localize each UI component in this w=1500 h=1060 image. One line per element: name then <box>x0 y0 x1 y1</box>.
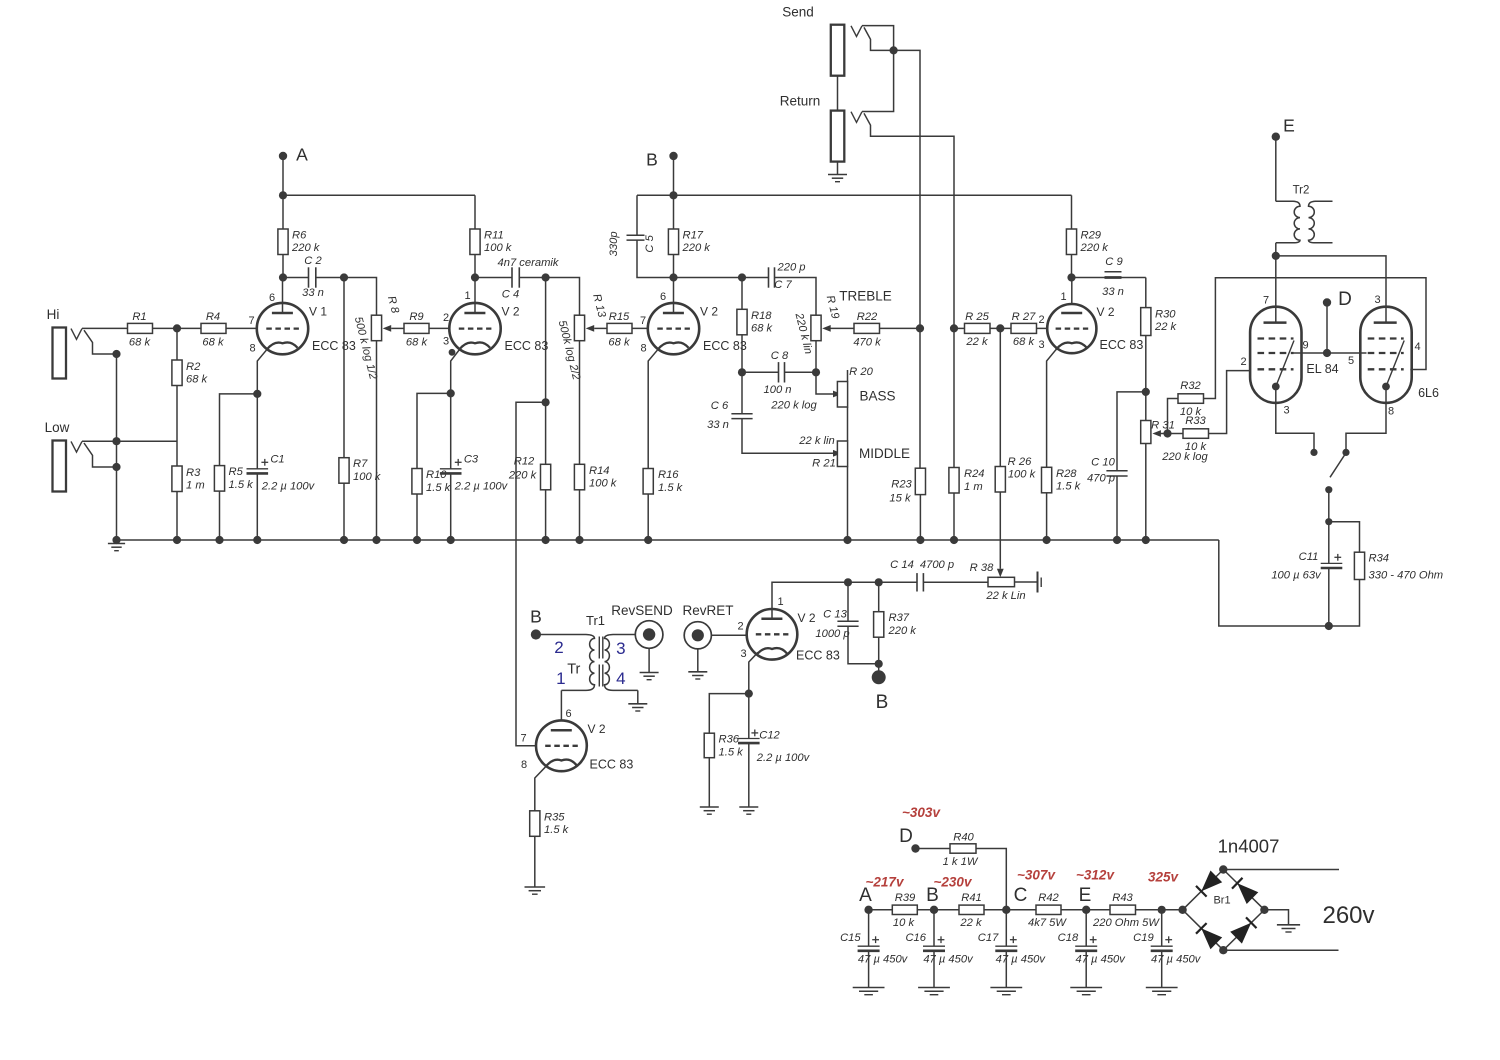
svg-text:47 µ 450v: 47 µ 450v <box>1076 954 1127 966</box>
svg-text:BASS: BASS <box>859 389 895 404</box>
diode D2 upper-right <box>1237 883 1258 904</box>
wire V2 plate pin 1 <box>1071 278 1073 306</box>
triode V2 third stage ECC 83 <box>648 303 699 354</box>
svg-text:MIDDLE: MIDDLE <box>859 446 910 461</box>
svg-text:22 k Lin: 22 k Lin <box>985 590 1025 602</box>
svg-text:R4: R4 <box>206 311 220 323</box>
svg-text:R9: R9 <box>409 311 423 323</box>
wire R27 to V2 grid pin 2 <box>1037 327 1048 329</box>
ground below C16 <box>918 987 950 989</box>
resistor R3 <box>172 466 182 492</box>
svg-text:3: 3 <box>1283 405 1289 417</box>
svg-text:330 - 470 Ohm: 330 - 470 Ohm <box>1369 570 1444 582</box>
svg-text:B: B <box>646 150 658 170</box>
potentiometer R8 500k log 1/2 <box>371 315 381 341</box>
svg-text:C 9: C 9 <box>1105 256 1122 268</box>
resistor R33 10k <box>1168 433 1184 435</box>
svg-text:Tr1: Tr1 <box>586 613 605 628</box>
resistor R12 <box>545 402 547 464</box>
svg-text:4n7 ceramik: 4n7 ceramik <box>498 257 560 269</box>
svg-text:ECC 83: ECC 83 <box>590 758 634 772</box>
svg-text:4700 p: 4700 p <box>920 559 954 571</box>
resistor R32 10k <box>1168 399 1179 434</box>
wiper node of R31 <box>1156 433 1168 435</box>
svg-text:10 k: 10 k <box>893 917 916 929</box>
node B reverb send <box>531 629 541 639</box>
potentiometer R31 220 k log <box>1141 421 1151 444</box>
resistor R25 <box>954 327 965 329</box>
power tube 6L6 <box>1360 307 1411 403</box>
svg-text:R24: R24 <box>964 468 985 480</box>
svg-text:V 2: V 2 <box>1097 305 1115 319</box>
V2 cathode pin 3 lead <box>749 652 758 693</box>
svg-text:D: D <box>899 826 913 847</box>
wire Tr2 primary to power tubes <box>1275 243 1277 256</box>
svg-text:R43: R43 <box>1112 892 1133 904</box>
svg-text:R23: R23 <box>891 478 912 490</box>
resistor R35 <box>530 811 540 837</box>
svg-text:7: 7 <box>640 315 646 327</box>
svg-text:A: A <box>296 145 308 165</box>
svg-text:9: 9 <box>1302 340 1308 352</box>
svg-text:~307v: ~307v <box>1017 868 1056 883</box>
svg-text:B: B <box>530 607 542 627</box>
svg-text:Send: Send <box>782 5 814 20</box>
svg-text:R18: R18 <box>751 310 772 322</box>
svg-text:220 Ohm 5W: 220 Ohm 5W <box>1092 917 1160 929</box>
svg-text:R34: R34 <box>1369 553 1390 565</box>
capacitor C8 100n <box>742 371 779 373</box>
wire jack shunt bus down to ground bus <box>116 354 118 540</box>
svg-text:10 k: 10 k <box>1185 441 1208 453</box>
svg-text:1: 1 <box>1060 291 1066 303</box>
svg-text:2.2 µ 100v: 2.2 µ 100v <box>756 752 811 764</box>
potentiometer R21 MIDDLE 22 k lin <box>847 407 849 441</box>
capacitor C12 2.2µ 100v <box>748 694 750 739</box>
capacitor C3 <box>450 393 452 468</box>
svg-text:~230v: ~230v <box>934 875 973 890</box>
svg-text:R32: R32 <box>1180 380 1201 392</box>
svg-text:R 31: R 31 <box>1151 419 1175 431</box>
svg-text:2.2 µ 100v: 2.2 µ 100v <box>261 481 316 493</box>
ground below R35 <box>525 886 546 888</box>
svg-text:Tr2: Tr2 <box>1293 185 1310 197</box>
svg-text:Tr: Tr <box>567 662 580 678</box>
ground below RevRET <box>697 648 699 672</box>
svg-text:Br1: Br1 <box>1213 895 1230 907</box>
svg-text:R 20: R 20 <box>849 366 873 378</box>
svg-text:1.5 k: 1.5 k <box>426 482 452 494</box>
svg-text:E: E <box>1283 116 1295 136</box>
svg-text:6: 6 <box>565 708 571 720</box>
svg-text:330p: 330p <box>608 231 620 256</box>
svg-text:C 13: C 13 <box>823 609 847 621</box>
svg-text:220 k log: 220 k log <box>770 400 817 412</box>
Return switch contact <box>864 113 954 328</box>
wire R1 to R4 <box>153 327 202 329</box>
ground below C19 <box>1146 987 1178 989</box>
svg-text:ECC 83: ECC 83 <box>796 649 840 663</box>
svg-text:EL 84: EL 84 <box>1306 362 1338 376</box>
svg-text:1.5 k: 1.5 k <box>719 747 745 759</box>
svg-text:R22: R22 <box>857 311 878 323</box>
svg-text:C16: C16 <box>905 932 926 944</box>
ground below Tr1 secondary <box>637 690 639 703</box>
svg-text:3: 3 <box>740 648 746 660</box>
svg-text:~312v: ~312v <box>1076 868 1115 883</box>
capacitor C11 100µ 63v <box>1328 522 1330 564</box>
resistor R14 <box>579 341 581 465</box>
svg-text:260v: 260v <box>1322 902 1374 929</box>
svg-text:7: 7 <box>248 315 254 327</box>
capacitor C14 4700p <box>879 581 917 583</box>
svg-text:100 k: 100 k <box>1008 469 1037 481</box>
svg-text:R29: R29 <box>1081 229 1102 241</box>
capacitor C18 47µ 450v <box>1085 910 1087 946</box>
svg-text:V 2: V 2 <box>502 305 520 319</box>
svg-text:7: 7 <box>520 733 526 745</box>
diode D3 lower-left <box>1201 928 1222 949</box>
svg-text:22 k: 22 k <box>959 917 983 929</box>
node A <box>279 152 287 160</box>
svg-text:2: 2 <box>1038 314 1044 326</box>
svg-text:470 p: 470 p <box>1087 473 1115 485</box>
triode V2 reverb driver ECC 83 <box>536 720 587 771</box>
svg-text:R 25: R 25 <box>965 311 989 323</box>
svg-text:1: 1 <box>556 669 565 688</box>
svg-text:C 10: C 10 <box>1091 457 1115 469</box>
wire plate line to C7/R18 <box>674 277 743 279</box>
svg-text:R3: R3 <box>186 467 201 479</box>
node B reverb return <box>878 664 880 671</box>
svg-text:TREBLE: TREBLE <box>839 289 892 304</box>
svg-text:1.5 k: 1.5 k <box>658 482 684 494</box>
wire 6L6 cathode pin 8 <box>1346 387 1386 453</box>
svg-text:~303v: ~303v <box>902 805 941 820</box>
svg-text:C: C <box>1014 885 1028 906</box>
svg-text:220 k: 220 k <box>888 625 918 637</box>
svg-text:C19: C19 <box>1133 932 1154 944</box>
wire R38 right end termination <box>1015 581 1038 583</box>
wire bridge right to ground <box>1264 910 1288 925</box>
svg-text:100 µ 63v: 100 µ 63v <box>1271 570 1322 582</box>
wire R33 to EL84 grid pin 2 <box>1209 371 1250 434</box>
svg-text:1.5 k: 1.5 k <box>544 824 570 836</box>
resistor R40 1k 1W <box>916 848 951 850</box>
wire Return tip from Send node <box>862 50 894 111</box>
svg-text:33 n: 33 n <box>1102 286 1124 298</box>
svg-text:C 5: C 5 <box>644 234 656 252</box>
svg-text:47 µ 450v: 47 µ 450v <box>1151 954 1202 966</box>
capacitor C4 4n7 ceramik <box>475 277 512 279</box>
wire Send tip <box>862 26 894 51</box>
svg-text:V 1: V 1 <box>309 305 327 319</box>
svg-text:R17: R17 <box>683 229 704 241</box>
svg-text:1000 p: 1000 p <box>815 628 849 640</box>
ground below C15 <box>853 987 885 989</box>
svg-text:C15: C15 <box>840 932 861 944</box>
capacitor C19 47µ 450v <box>1161 910 1163 946</box>
svg-text:C 7: C 7 <box>774 279 792 291</box>
svg-text:R7: R7 <box>353 458 368 470</box>
ground below R36 <box>700 806 719 808</box>
svg-text:2: 2 <box>554 638 563 657</box>
svg-text:1 k 1W: 1 k 1W <box>943 856 979 868</box>
capacitor C7 220p <box>742 277 769 279</box>
wire cathode node to R10 <box>417 393 451 468</box>
svg-text:V 2: V 2 <box>798 611 816 625</box>
Hi jack switch contact <box>84 330 117 354</box>
wire R32 to 6L6 grid pin 4 <box>1204 278 1427 399</box>
svg-text:15 k: 15 k <box>889 493 912 505</box>
wire feed line A <box>283 194 475 196</box>
V2 cathode pin 3 lead <box>451 348 461 393</box>
svg-text:1.5 k: 1.5 k <box>1056 481 1082 493</box>
wire Hi tip to R1 <box>82 327 128 329</box>
triode V1 ECC 83 <box>257 303 308 354</box>
svg-text:100 k: 100 k <box>484 242 513 254</box>
svg-text:3: 3 <box>616 639 625 658</box>
svg-text:C18: C18 <box>1058 932 1079 944</box>
V2 cathode pin 8 lead to R16 <box>648 348 659 468</box>
node B <box>669 152 677 160</box>
ground below Return jack <box>837 162 839 175</box>
V1 cathode pin 8 lead <box>257 348 268 394</box>
svg-text:68 k: 68 k <box>608 337 631 349</box>
svg-text:47 µ 450v: 47 µ 450v <box>923 954 974 966</box>
svg-text:RevSEND: RevSEND <box>611 603 673 618</box>
ground at bridge <box>1277 924 1300 926</box>
svg-text:100 k: 100 k <box>353 471 382 483</box>
resistor R28 <box>1042 467 1052 493</box>
svg-text:C11: C11 <box>1299 551 1319 563</box>
svg-text:325v: 325v <box>1148 870 1180 885</box>
capacitor C9 33n <box>1072 277 1146 279</box>
resistor R39 10k <box>869 909 893 911</box>
potentiometer R38 22k Lin <box>988 577 1015 586</box>
wire R15 to V2 grid pin 7 <box>632 327 648 329</box>
resistor R26 <box>999 328 1001 466</box>
diode D1 upper-left <box>1201 871 1222 892</box>
svg-text:7: 7 <box>1263 295 1269 307</box>
Low jack switch contact <box>84 443 117 467</box>
svg-text:R 27: R 27 <box>1012 311 1036 323</box>
potentiometer R20 BASS 220 k log <box>816 372 834 394</box>
svg-text:R42: R42 <box>1038 892 1059 904</box>
resistor R9 <box>391 327 404 329</box>
svg-text:4: 4 <box>616 669 625 688</box>
wire AC input top <box>1223 869 1339 871</box>
svg-text:RevRET: RevRET <box>682 603 733 618</box>
svg-text:R6: R6 <box>292 229 307 241</box>
wire C2 to R8 top <box>344 278 377 316</box>
svg-text:68 k: 68 k <box>406 337 429 349</box>
resistor R43 220 Ohm 5W <box>1086 909 1110 911</box>
wire R2 to R3 <box>176 386 178 467</box>
capacitor C2 <box>283 277 309 279</box>
wire R4 to V1 grid pin 7 <box>226 327 257 329</box>
ground below C18 <box>1070 987 1102 989</box>
Send switch contact <box>864 27 894 50</box>
wire Send sleeve to Return <box>837 76 839 111</box>
svg-text:R33: R33 <box>1185 415 1206 427</box>
capacitor C17 47µ 450v <box>1005 910 1007 946</box>
svg-text:R11: R11 <box>484 229 504 241</box>
svg-text:Low: Low <box>45 420 70 435</box>
svg-text:1n4007: 1n4007 <box>1218 836 1280 857</box>
svg-text:R 38: R 38 <box>970 562 994 574</box>
svg-text:68 k: 68 k <box>129 337 152 349</box>
V2 cathode pin 3 lead to R28 <box>1047 347 1058 467</box>
svg-text:220 k: 220 k <box>1080 242 1110 254</box>
svg-text:R39: R39 <box>895 892 916 904</box>
svg-text:220 k: 220 k <box>508 469 538 481</box>
svg-text:C3: C3 <box>464 454 479 466</box>
svg-text:22 k: 22 k <box>965 336 989 348</box>
svg-text:2: 2 <box>1240 356 1246 368</box>
wire screen line EL84 pin 9 to 6L6 pin 5 <box>1294 352 1367 354</box>
svg-text:220 p: 220 p <box>777 262 806 274</box>
potentiometer R19 TREBLE 220 k lin <box>811 315 821 341</box>
svg-text:68 k: 68 k <box>202 337 225 349</box>
wire R9 to V2 grid pin 2 <box>429 327 450 329</box>
triode V2 fourth stage ECC 83 <box>1047 304 1096 353</box>
ground bus <box>117 539 1219 541</box>
wire V1 plate pin 6 <box>282 278 284 314</box>
resistor R17 <box>673 195 675 229</box>
wire cathode node to R5 <box>220 394 258 466</box>
svg-text:R37: R37 <box>889 612 910 624</box>
svg-text:22 k: 22 k <box>1154 321 1178 333</box>
resistor R24 <box>950 324 958 332</box>
svg-text:470 k: 470 k <box>853 337 882 349</box>
svg-text:R40: R40 <box>953 831 974 843</box>
wire grid pin 7 from R12 node <box>516 745 536 747</box>
svg-text:R36: R36 <box>719 734 740 746</box>
ground below C17 <box>990 987 1022 989</box>
svg-text:R14: R14 <box>589 465 610 477</box>
svg-text:47 µ 450v: 47 µ 450v <box>858 954 909 966</box>
wire EL84 cathode pin 3 <box>1276 387 1314 453</box>
svg-text:V 2: V 2 <box>588 722 606 736</box>
resistor R18 <box>741 278 743 310</box>
ground symbol at bus <box>108 543 125 545</box>
svg-text:4k7 5W: 4k7 5W <box>1028 917 1067 929</box>
wire RevRET to V2 grid pin 2 <box>711 634 747 636</box>
svg-text:R35: R35 <box>544 811 565 823</box>
capacitor C16 47µ 450v <box>933 910 935 946</box>
wire C4 to R13 top <box>546 278 580 316</box>
wire V2 plate pin 6 <box>673 278 675 314</box>
resistor R37 <box>848 581 879 583</box>
svg-text:68 k: 68 k <box>751 323 774 335</box>
resistor R11 <box>474 195 476 229</box>
svg-text:V 2: V 2 <box>700 305 718 319</box>
diode D4 lower-right <box>1230 923 1251 944</box>
capacitor C13 1000p <box>847 582 849 621</box>
svg-text:R10: R10 <box>426 469 447 481</box>
resistor R6 <box>282 195 284 229</box>
svg-text:ECC 83: ECC 83 <box>312 339 356 353</box>
svg-text:R15: R15 <box>609 311 630 323</box>
node D <box>1323 298 1331 306</box>
svg-text:220 k: 220 k <box>291 242 321 254</box>
potentiometer R13 500k log 2/2 <box>574 315 584 341</box>
svg-text:22 k lin: 22 k lin <box>798 435 834 447</box>
resistor R15 <box>594 327 607 329</box>
svg-text:100 n: 100 n <box>764 384 792 396</box>
capacitor C15 47µ 450v <box>868 910 870 946</box>
resistor R22 470k <box>854 323 880 333</box>
svg-text:2: 2 <box>737 621 743 633</box>
node E <box>1272 133 1280 141</box>
svg-text:R5: R5 <box>229 466 244 478</box>
triode V2 second stage ECC 83 <box>449 303 500 354</box>
svg-text:8: 8 <box>249 342 255 354</box>
svg-text:R2: R2 <box>186 361 201 373</box>
resistor R29 <box>1071 195 1073 229</box>
svg-text:6: 6 <box>269 292 275 304</box>
svg-text:4: 4 <box>1414 341 1420 353</box>
svg-text:6L6: 6L6 <box>1418 386 1439 400</box>
svg-text:1: 1 <box>777 596 783 608</box>
svg-text:33 n: 33 n <box>707 419 729 431</box>
wire Send node to R22/R23 line <box>894 50 920 328</box>
svg-text:R 21: R 21 <box>812 458 836 470</box>
svg-text:47 µ 450v: 47 µ 450v <box>996 954 1047 966</box>
svg-text:68 k: 68 k <box>186 374 209 386</box>
svg-text:C 4: C 4 <box>502 288 519 300</box>
resistor R7 <box>343 278 345 458</box>
svg-text:3: 3 <box>1374 294 1380 306</box>
svg-text:5: 5 <box>1348 355 1354 367</box>
svg-text:Return: Return <box>780 94 821 109</box>
svg-text:R 26: R 26 <box>1008 456 1032 468</box>
svg-text:D: D <box>1338 289 1352 310</box>
resistor R41 22k <box>934 909 959 911</box>
wire V2 plate pin 1 to C13/C14 line <box>772 582 848 618</box>
triode V2 reverb recovery ECC 83 <box>747 609 798 660</box>
svg-text:8: 8 <box>521 759 527 771</box>
cathode switch <box>1330 454 1345 477</box>
svg-text:C 2: C 2 <box>304 255 322 267</box>
wire R12 branch and reverb feed <box>545 278 547 403</box>
svg-text:33 n: 33 n <box>302 287 324 299</box>
resistor R10 <box>412 469 422 495</box>
resistor R2 <box>176 328 178 360</box>
svg-text:3: 3 <box>443 335 449 347</box>
svg-text:R12: R12 <box>514 456 535 468</box>
svg-text:100 k: 100 k <box>589 478 618 490</box>
power tube EL84 <box>1250 307 1301 403</box>
svg-text:Hi: Hi <box>47 307 60 322</box>
resistor R4 <box>201 323 226 333</box>
svg-text:220 k: 220 k <box>682 242 712 254</box>
resistor R5 <box>214 466 224 492</box>
svg-text:6: 6 <box>660 291 666 303</box>
capacitor C5 330p <box>636 195 638 235</box>
capacitor C1 <box>256 394 258 469</box>
svg-text:3: 3 <box>1038 339 1044 351</box>
svg-text:C12: C12 <box>759 729 780 741</box>
svg-text:1: 1 <box>464 290 470 302</box>
svg-text:R28: R28 <box>1056 468 1077 480</box>
wire V2 plate pin 1 <box>474 278 476 314</box>
svg-text:C 6: C 6 <box>711 400 729 412</box>
V2 cathode pin 8 lead to R35 <box>535 765 547 811</box>
svg-text:ECC 83: ECC 83 <box>505 339 549 353</box>
resistor R1 <box>128 323 153 333</box>
